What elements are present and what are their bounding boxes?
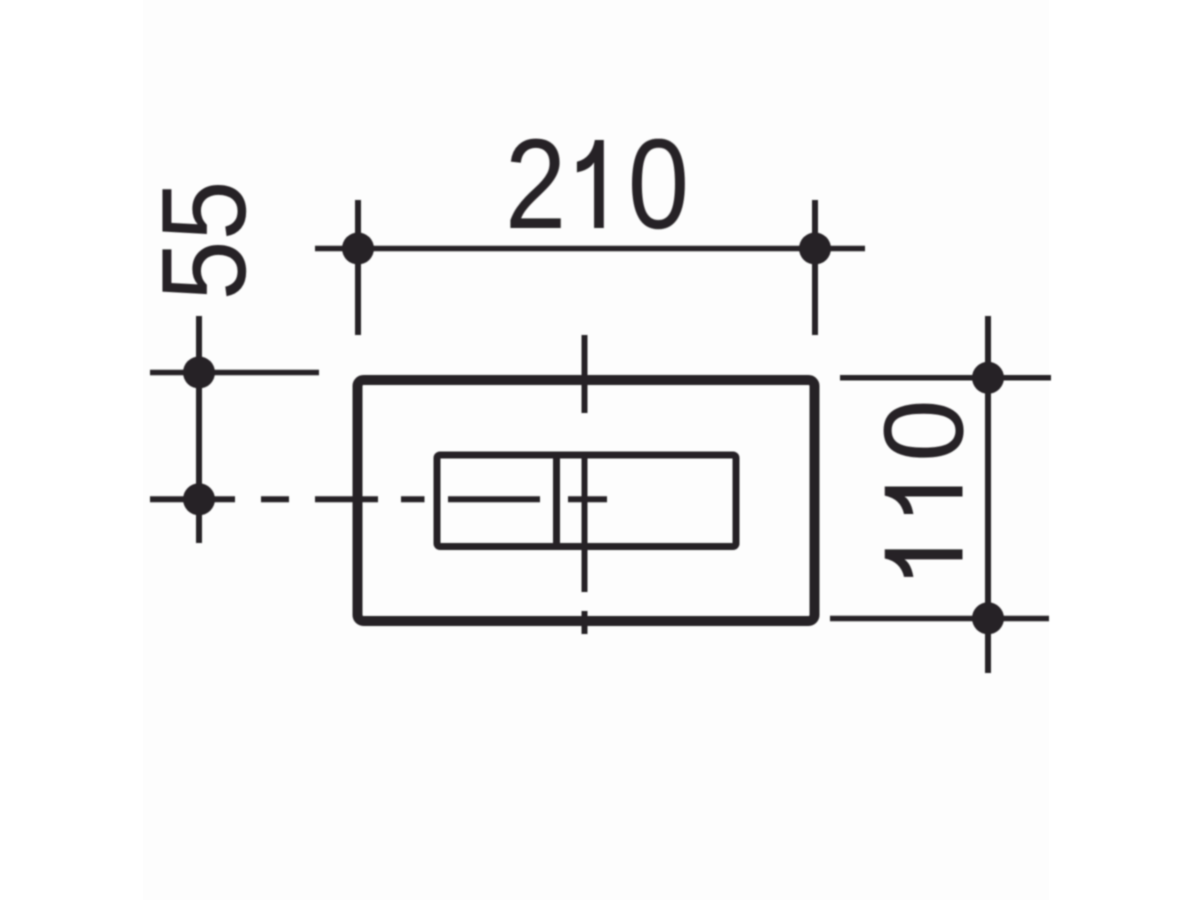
horizontal centerline dash 5 button stripe [448, 496, 540, 502]
dimension line 55 vertical [196, 316, 202, 543]
horizontal centerline dash 1 through lower left datum dot [150, 496, 235, 502]
dimension 110 bottom extension line [830, 616, 1049, 622]
button recess rectangle [437, 455, 736, 547]
dimension 55 top extension tick [150, 370, 319, 376]
vertical centerline dash 1 [582, 335, 588, 413]
button divider line [553, 453, 560, 550]
dimension 110 top extension line [840, 375, 1051, 381]
dimension line 210 [315, 246, 865, 252]
datum dot 55 bottom [183, 483, 215, 515]
horizontal centerline dash 6 center cross [568, 496, 607, 502]
content band background [143, 0, 1049, 900]
dimension 210 left extension tick [355, 200, 361, 335]
vertical centerline dash 2 [582, 453, 588, 592]
horizontal centerline dash 3 [315, 496, 378, 502]
vertical centerline dash 3 [582, 611, 588, 634]
horizontal centerline dash 2 [261, 496, 289, 502]
plate outline rectangle [358, 380, 815, 621]
dimension label 110 [884, 404, 964, 577]
dimension line 110 vertical [985, 316, 991, 673]
dimension label 55 [162, 185, 246, 296]
datum dot 210 left [342, 233, 374, 265]
dimension label 210 [510, 139, 684, 230]
dimension 210 right extension tick [812, 200, 818, 335]
datum dot 110 top [972, 362, 1004, 394]
datum dot 210 right [799, 233, 831, 265]
horizontal centerline dash 4 [401, 496, 425, 502]
datum dot 110 bottom [972, 602, 1004, 634]
datum dot 55 top [183, 357, 215, 389]
